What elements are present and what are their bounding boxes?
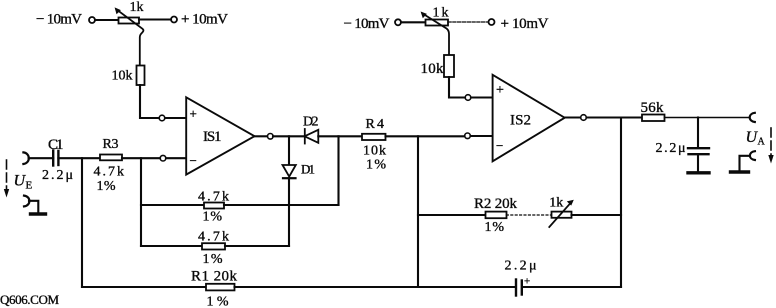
svg-text:+ 10mV: + 10mV <box>501 16 549 32</box>
svg-text:D2: D2 <box>303 114 319 129</box>
input terminal UE (arc) <box>23 152 28 164</box>
potentiometer P2 wiper arrow <box>423 14 450 56</box>
wire C1 to R3 <box>58 157 100 159</box>
bottom rail middle <box>235 286 516 288</box>
output terminal UA (arc) <box>750 113 755 122</box>
svg-text:10k: 10k <box>112 69 133 84</box>
ground (input) <box>31 212 46 215</box>
wire to input ground <box>29 201 38 212</box>
svg-text:2.2μ: 2.2μ <box>505 259 537 274</box>
svg-text:1%: 1% <box>485 220 505 235</box>
wire pot P1 to +10mV <box>139 18 171 20</box>
resistor R2 20k body <box>486 212 507 219</box>
resistor R1 20k body <box>206 284 235 291</box>
op-amp IS1 <box>186 97 254 174</box>
svg-text:E: E <box>26 180 33 192</box>
bottom rail right <box>522 286 621 288</box>
wire R3 to IS1 - input <box>122 157 160 159</box>
svg-text:D1: D1 <box>301 161 315 176</box>
svg-text:10k: 10k <box>421 61 445 77</box>
ground (output) <box>731 170 749 173</box>
UE arrow (dashed) <box>6 160 8 192</box>
wire circle to IS1 <box>165 117 186 119</box>
bottom rail left <box>82 286 206 288</box>
node IS1 output circle <box>268 134 274 140</box>
wire 56k to output terminal <box>665 117 750 119</box>
wire R4 to IS2 - input <box>386 135 465 137</box>
ground (output cap) <box>688 171 709 174</box>
potentiometer 1k (row) body <box>552 212 572 218</box>
diode D1 branch wire down <box>288 136 290 165</box>
node +10mV terminal (right) <box>489 19 495 25</box>
svg-text:−: − <box>190 153 197 168</box>
node IS2 - input circle <box>465 133 471 139</box>
resistor 4.7k row1 body <box>204 203 224 209</box>
capacitor 2.2u (output) wire down <box>697 118 699 148</box>
svg-text:Q606.COM: Q606.COM <box>0 292 59 307</box>
resistor 10k (left, vertical) <box>137 66 145 86</box>
wire 10k to IS2 + input <box>449 77 465 98</box>
UA arrow (dashed) <box>770 128 772 158</box>
node IS1 - input circle <box>160 155 166 161</box>
node -10mV terminal (right) <box>395 19 401 25</box>
wire R2 to pot (dotted) <box>507 214 552 216</box>
svg-text:IS2: IS2 <box>510 112 531 128</box>
potentiometer 1k wiper arrow <box>549 203 571 228</box>
svg-text:A: A <box>758 137 766 148</box>
resistor 56k body <box>642 115 665 122</box>
svg-text:−: − <box>496 138 503 153</box>
output ground terminal arc <box>750 151 755 160</box>
svg-text:2.2μ: 2.2μ <box>42 168 73 183</box>
resistor R3 body <box>100 155 122 161</box>
feedback row 1: wire <box>140 158 142 246</box>
svg-text:4.7k: 4.7k <box>198 190 229 205</box>
wire junction down (x=621) to bottom rail <box>620 118 622 288</box>
svg-text:+: + <box>496 83 504 98</box>
wire circle to IS2 <box>471 96 493 98</box>
svg-text:R4: R4 <box>366 117 385 132</box>
wire branch down from D2/R4 node to row 1 <box>337 136 339 205</box>
svg-text:1%: 1% <box>366 157 386 172</box>
svg-text:R2 20k: R2 20k <box>474 196 518 212</box>
wire junction down from R4 node (x=418) to bottom rail <box>417 136 419 287</box>
node IS2 output circle <box>581 115 587 121</box>
diode D1 <box>283 165 296 178</box>
capacitor 2.2u (output) <box>688 147 709 149</box>
resistor 10k (right, vertical) <box>444 55 454 77</box>
svg-text:4.7k: 4.7k <box>94 164 125 179</box>
diode D2 <box>305 129 319 144</box>
wire 10k to IS1 + input <box>140 85 159 118</box>
svg-text:1%: 1% <box>203 209 223 224</box>
potentiometer P2 1k body <box>426 20 449 26</box>
wire pot P2 to +10mV (thin) <box>448 21 489 23</box>
feedback row 2: wire <box>141 245 202 247</box>
R2 feedback row: wire <box>418 214 486 216</box>
wire cap to ground <box>697 154 699 171</box>
op-amp IS2 <box>493 75 565 162</box>
wire row2 right <box>225 245 289 247</box>
input ground terminal arc <box>24 196 29 207</box>
wire IS2 output <box>565 116 580 118</box>
wire IS2 output to 56k <box>587 116 643 118</box>
wire junction down to bottom rail (x=82) <box>81 158 83 287</box>
wire circle to IS2 <box>471 135 494 137</box>
wire D1 down to feedback row 2 <box>288 178 290 246</box>
wire row1 right <box>224 204 339 206</box>
svg-text:− 10mV: − 10mV <box>36 12 82 28</box>
resistor 4.7k row2 body <box>202 243 225 249</box>
wire -10mV to pot P2 <box>401 21 426 23</box>
svg-text:+: + <box>190 106 197 121</box>
svg-text:+: + <box>524 276 530 288</box>
resistor R4 body <box>362 134 386 140</box>
svg-text:1k: 1k <box>549 196 563 211</box>
capacitor C1 <box>52 151 54 166</box>
svg-text:56k: 56k <box>641 100 665 116</box>
wire IS1 output <box>255 135 268 137</box>
node IS2 + input circle <box>465 95 471 101</box>
svg-text:1%: 1% <box>97 179 116 194</box>
node +10mV terminal (left) <box>171 17 177 23</box>
svg-text:− 10mV: − 10mV <box>344 16 390 32</box>
svg-text:10k: 10k <box>363 143 386 158</box>
capacitor 2.2u (bottom, polarized) <box>515 280 517 296</box>
svg-text:1k: 1k <box>130 0 144 15</box>
svg-text:1%: 1% <box>203 252 223 267</box>
wire D2 to R4 <box>318 135 362 137</box>
wire -10mV to pot P1 <box>95 19 118 21</box>
svg-text:4.7k: 4.7k <box>198 229 229 244</box>
svg-text:C1: C1 <box>48 137 64 153</box>
svg-text:2.2μ: 2.2μ <box>656 141 686 156</box>
svg-text:R3: R3 <box>103 137 119 152</box>
wire pot to right vertical <box>572 214 622 216</box>
node -10mV terminal (left) <box>89 17 95 23</box>
potentiometer P1 1k body <box>119 18 140 24</box>
svg-text:+ 10mV: + 10mV <box>181 12 228 28</box>
wire circle to IS1 <box>166 157 186 159</box>
potentiometer P1 wiper arrow <box>117 10 144 66</box>
wire input to C1 <box>29 157 54 159</box>
svg-text:IS1: IS1 <box>203 129 222 145</box>
svg-text:R1 20k: R1 20k <box>191 269 238 285</box>
wire to output ground <box>740 156 750 170</box>
svg-text:1%: 1% <box>207 295 229 308</box>
node IS1 + input circle <box>159 115 165 121</box>
wire IS1 output to D2 <box>273 135 305 137</box>
